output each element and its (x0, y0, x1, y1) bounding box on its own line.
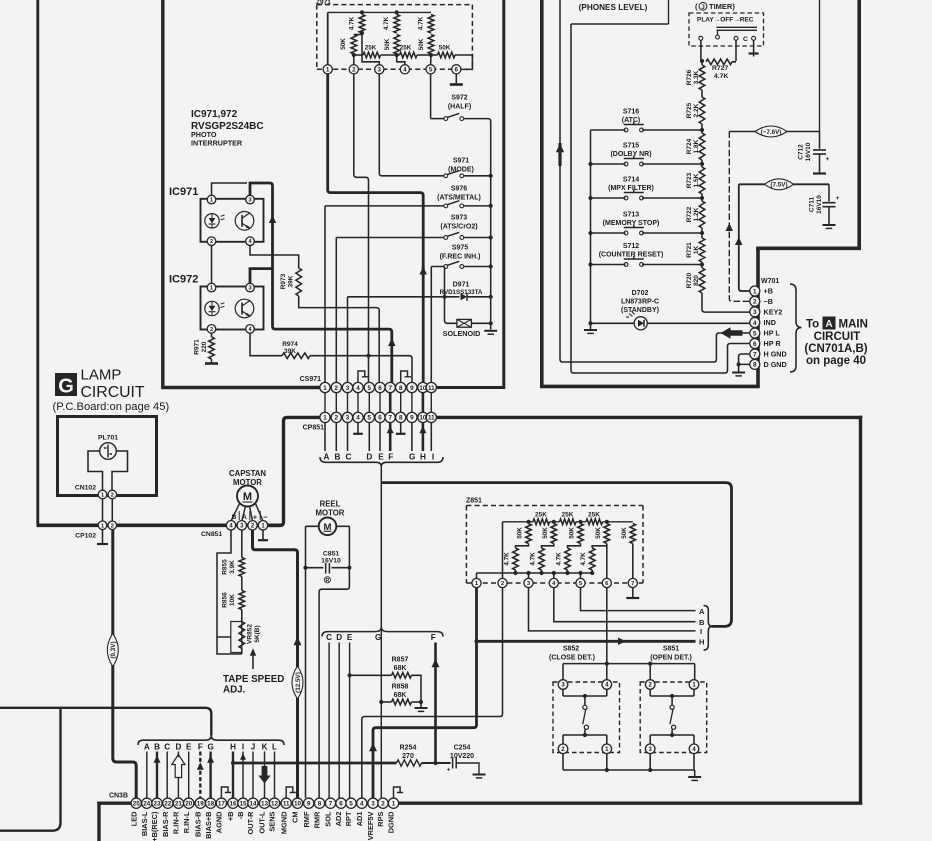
svg-text:15: 15 (239, 801, 247, 808)
connector CP851 pin 7 (385, 412, 395, 422)
svg-text:4.7K: 4.7K (714, 73, 728, 80)
svg-text:39K: 39K (288, 275, 295, 287)
wire - solenoid to rail (471, 322, 490, 324)
connector CN3B pin 11 (MGND) (281, 798, 291, 808)
connector CS971 pin 9 (407, 382, 417, 392)
arrow - up on CS971 pin7 bus (388, 338, 396, 346)
resistor R725 2.2K (701, 90, 703, 97)
svg-text:6: 6 (753, 341, 757, 348)
svg-text:R: R (325, 578, 329, 584)
svg-text:RMF: RMF (302, 811, 311, 827)
svg-text:7: 7 (388, 415, 392, 422)
connector Z971 pin 1 (323, 65, 332, 74)
resistor 4.7K (Z971 second) (394, 15, 400, 34)
arrow - up on pin10 bus (419, 267, 427, 275)
wire - CN102 to CP102 (103, 499, 113, 521)
wire - left box bottom border left of CS971 (161, 386, 322, 389)
wire - rail to C254 (422, 762, 451, 764)
svg-text:9: 9 (410, 385, 414, 392)
connector Z971 pin 3 (375, 65, 384, 74)
motor capstan M (237, 486, 258, 507)
jumper bracket at CN3B pin17 (AGND) (221, 787, 231, 798)
wire - HP R route to W701 pin6 (571, 344, 750, 374)
svg-text:1: 1 (323, 415, 327, 422)
svg-text:D971: D971 (453, 282, 470, 289)
svg-text:50K: 50K (418, 38, 425, 50)
wire - thick F column to +B rail (434, 643, 437, 764)
svg-text:6: 6 (378, 385, 382, 392)
svg-text:KEY2: KEY2 (764, 307, 783, 316)
svg-text:3: 3 (346, 385, 350, 392)
connector IC971 pin 3 (246, 195, 255, 204)
svg-text:(PHONES LEVEL): (PHONES LEVEL) (579, 3, 648, 12)
wire - thick bus Z971 pin1 to CS971 pin10 (328, 74, 424, 383)
label C851 polarity mark (324, 577, 330, 583)
svg-text:W701: W701 (761, 278, 779, 285)
svg-text:D: D (175, 743, 181, 752)
connector W701 pin 3 (KEY2) (750, 307, 760, 317)
switch S975 contacts (444, 265, 448, 269)
svg-text:BIAS-B: BIAS-B (194, 812, 203, 837)
svg-text:CIRCUIT: CIRCUIT (814, 331, 861, 343)
svg-text:7: 7 (329, 801, 333, 808)
wire - R973 bottom to CS971 pin6 column (299, 296, 380, 383)
switch TIMER dashed box (689, 13, 764, 46)
connector Z971 pin 4 (400, 65, 409, 74)
node - H line junction on pin1 column (474, 639, 478, 643)
arrow - up on VREF5V wire (369, 743, 377, 751)
svg-text:18: 18 (207, 801, 215, 808)
switch TIMER slider bar (717, 27, 758, 34)
wire - thick bundle branch to Z851 area (381, 483, 731, 627)
wire - thick stubs pins 7 and 10 (390, 392, 423, 413)
svg-text:R971: R971 (194, 339, 201, 355)
connector CN3B pin 8 (RMR) (314, 798, 324, 808)
resistor R724 1.8K (701, 124, 703, 133)
connector CN3B pin 21 (R.IN-R) (173, 798, 183, 808)
svg-text:CS971: CS971 (300, 376, 322, 383)
svg-text:L: L (272, 743, 277, 752)
wire - Z851 pin columns (529, 544, 633, 579)
svg-text:50K: 50K (384, 38, 391, 50)
wire - thick H column (+B) to CN3B pin16 (232, 752, 234, 799)
connector CN3B pin 4 (AD1) (357, 798, 367, 808)
svg-text:8: 8 (753, 362, 757, 369)
svg-text:(F.REC INH.): (F.REC INH.) (440, 254, 481, 261)
svg-text:E: E (347, 633, 353, 642)
connector CN851 pin 1 (258, 521, 267, 530)
svg-text:I: I (432, 453, 434, 462)
svg-text:S713: S713 (623, 212, 639, 219)
terminator - CP851 pin8 stub (400, 422, 402, 433)
svg-text:R857: R857 (392, 657, 409, 664)
svg-text:OUT-R: OUT-R (246, 811, 255, 835)
svg-text:19: 19 (197, 801, 205, 808)
resistor R722 1.2K (701, 194, 703, 201)
diode D702 LED symbol (634, 317, 647, 330)
svg-text:A: A (825, 319, 832, 330)
svg-text:16: 16 (229, 801, 237, 808)
wire - right block right border (857, 0, 861, 250)
wire - D702 row (IND) (591, 322, 635, 324)
svg-text:C711: C711 (809, 197, 816, 213)
svg-text:C712: C712 (798, 144, 805, 160)
svg-text:M: M (243, 491, 252, 503)
svg-text:IND: IND (764, 318, 776, 327)
svg-text:(−7.6V): (−7.6V) (761, 129, 782, 136)
svg-text:820: 820 (693, 275, 700, 286)
svg-text:(7.5V): (7.5V) (770, 182, 787, 189)
svg-text:E: E (378, 453, 384, 462)
label voltage (7.5V) (765, 179, 794, 190)
svg-text:BIAS-R: BIAS-R (161, 811, 170, 837)
resistor 25K (Z851 2) (560, 519, 577, 525)
connector CN3B pin 9 (RMF) (304, 798, 314, 808)
svg-text:S712: S712 (623, 243, 639, 250)
svg-text:1: 1 (753, 288, 757, 295)
svg-text:J: J (251, 743, 256, 752)
wire - thick IC972 pin3 link (250, 269, 273, 284)
connector IC972 pin 4 (246, 325, 255, 334)
svg-text:S973: S973 (451, 215, 467, 222)
connector Z851 pin 2 (498, 578, 507, 587)
connector CS971 pin 2 (331, 382, 341, 392)
wire - Z971 top rail (328, 11, 431, 13)
connector Z851 pin 3 (524, 578, 533, 587)
connector CP851 pin 4 (353, 412, 363, 422)
resistor 4.7K (Z971 third) (428, 15, 434, 34)
svg-text:12: 12 (271, 801, 279, 808)
svg-text:6: 6 (378, 415, 382, 422)
svg-text:(MEMORY STOP): (MEMORY STOP) (603, 220, 660, 227)
svg-text:1: 1 (323, 385, 327, 392)
svg-text:14: 14 (249, 801, 257, 808)
connector CN3B pin 19 (BIAS-B) (195, 798, 205, 808)
svg-text:Z851: Z851 (466, 498, 482, 505)
svg-text:270: 270 (402, 753, 414, 760)
arrow - up on HP L rail (558, 143, 561, 166)
wire - detector switch top feed line (563, 663, 695, 665)
svg-text:F: F (388, 453, 393, 462)
svg-text:(STANDBY): (STANDBY) (621, 307, 659, 314)
svg-text:3: 3 (248, 198, 251, 204)
connector CN3B pin 25 (LED) (131, 798, 141, 808)
connector Z971 pin 5 (426, 65, 435, 74)
svg-text:7: 7 (388, 385, 392, 392)
wire - right block step horizontal (756, 247, 861, 251)
svg-text:S976: S976 (451, 186, 467, 193)
svg-text:CN102: CN102 (75, 485, 96, 492)
connector CN3B pin 2 (RPS) (378, 798, 388, 808)
svg-text:E: E (186, 743, 192, 752)
wire - timer contacts down (701, 40, 736, 61)
wire - Z851 top rail (503, 521, 633, 523)
lamp PL701 (100, 443, 117, 460)
connector IC971 pin 2 (207, 237, 216, 246)
wire - Z851 pin5 to letter A (581, 588, 696, 611)
svg-text:R720: R720 (686, 272, 693, 288)
ground - W701 H GND/D GND (732, 372, 745, 374)
wire - A column to CN3B pin24 (146, 752, 148, 799)
wire - 50K to Z971 pin6 hook (455, 55, 472, 69)
connector CN3B pin 24 (BIAS-L) (142, 798, 152, 808)
svg-text:4.7K: 4.7K (504, 552, 511, 566)
svg-text:17: 17 (218, 801, 226, 808)
connector IC972 pin 2 (207, 325, 216, 334)
wire - Z851 pin3 to letter I (529, 588, 696, 631)
wire - Z851 pin4 to letter B (554, 588, 696, 622)
svg-text:25K: 25K (365, 44, 377, 51)
wire - C column to CN3B pin22 (166, 752, 168, 799)
wire - left box bottom border right of CS971 (437, 386, 505, 389)
svg-text:(12.5V): (12.5V) (295, 672, 302, 693)
resistor 25K (Z851 3) (586, 519, 603, 525)
connector CN3B pin 10 (CM) (292, 798, 302, 808)
connector IC971 pin 1 (207, 195, 216, 204)
connector CS971 pin 11 (426, 382, 436, 392)
resistor network Z971 dashed box (317, 5, 473, 70)
svg-text:25K: 25K (562, 512, 574, 519)
connector CP851 pin 1 (320, 412, 330, 422)
svg-text:C: C (326, 633, 332, 642)
wire - lower bundle brace for letters C D E G F (322, 627, 443, 636)
terminator - CN851 pin1 (262, 530, 264, 539)
connector CS971 pin 6 (375, 382, 385, 392)
svg-text:S714: S714 (623, 177, 639, 184)
connector CP851 pin 9 (407, 412, 417, 422)
svg-text:50K: 50K (439, 44, 451, 51)
svg-text:+: + (826, 156, 830, 163)
wire - R856 to VR852 (241, 610, 243, 622)
connector IC971 pin 4 (246, 237, 255, 246)
arrow - up on F column (432, 659, 440, 667)
wire - J column to CN3B pin14 (252, 752, 254, 799)
wire - S975 row to CS971 pin11 column (431, 267, 444, 384)
svg-text:R856: R856 (222, 592, 229, 608)
svg-text:(DOLBY NR): (DOLBY NR) (610, 151, 651, 158)
svg-text:Z971: Z971 (316, 0, 331, 6)
ground - D702 left (590, 322, 592, 329)
svg-text:To: To (806, 319, 819, 331)
svg-text:13: 13 (261, 801, 269, 808)
svg-text:20: 20 (185, 801, 193, 808)
svg-text:4: 4 (753, 320, 757, 327)
svg-text:25: 25 (133, 801, 141, 808)
connector IC972 pin 1 (207, 283, 216, 292)
svg-text:6: 6 (339, 801, 343, 808)
wire - Z851 pin6 column to detector switches (606, 588, 608, 680)
wire - lamp to CN102 (88, 451, 103, 491)
svg-text:25K: 25K (400, 44, 412, 51)
wire - C column (328, 643, 330, 799)
svg-text:10V220: 10V220 (450, 753, 474, 760)
svg-text:25K: 25K (588, 512, 600, 519)
svg-text:R974: R974 (282, 341, 298, 348)
solenoid symbol (457, 319, 472, 327)
svg-text:K: K (262, 743, 268, 752)
resistor R855 3.9K (239, 558, 245, 577)
svg-text:50K: 50K (621, 527, 628, 539)
svg-text:16V10: 16V10 (816, 195, 823, 214)
connector CS971 pin 4 (353, 382, 363, 392)
svg-text:S972: S972 (451, 95, 467, 102)
svg-text:C: C (743, 36, 748, 43)
connector CN3B pin 6 (AD2) (336, 798, 346, 808)
svg-text:IC972: IC972 (169, 274, 198, 286)
svg-text:G: G (375, 633, 381, 642)
svg-text:21: 21 (175, 801, 183, 808)
arrow - up on F line (387, 426, 394, 433)
wire - C254 to ground (456, 763, 479, 774)
resistor 25K (Z971 left horizontal) (354, 54, 363, 56)
svg-text:2: 2 (111, 493, 114, 499)
wire - HP R rail (570, 24, 572, 370)
switch TIMER contacts (699, 36, 703, 40)
svg-text:3.3K: 3.3K (693, 70, 700, 84)
arrow - up on F column CN3B (197, 762, 204, 770)
svg-text:MAIN: MAIN (839, 319, 868, 331)
wire - D column (338, 643, 340, 799)
wire - HP L rail (559, 0, 561, 360)
wire - thick F line below CP851 pin7 (389, 422, 392, 451)
wire - R974 row to CS971 pin9 column (310, 356, 412, 383)
svg-text:SENS: SENS (268, 811, 277, 831)
connector Z851 pin 1 (472, 578, 481, 587)
wire - left box left border (161, 0, 164, 387)
connector CS971 pin 8 (396, 382, 406, 392)
svg-text:PLAY→OFF→REC: PLAY→OFF→REC (697, 16, 754, 23)
diode D971 symbol (461, 293, 468, 300)
connector CP851 pin 3 (342, 412, 352, 422)
arrow - up on +B run (735, 237, 743, 245)
wire - IC971 pin2 to IC972 pin1 (211, 246, 213, 284)
svg-text:BIAS+B: BIAS+B (204, 812, 213, 839)
connector CN102 pin 1 (98, 490, 107, 499)
wire - push switch left rail (590, 130, 592, 322)
wire - Z851 pin2 column (502, 522, 504, 579)
svg-text:4.7K: 4.7K (530, 552, 537, 566)
arrow - up on H line (419, 426, 426, 433)
svg-text:F: F (431, 633, 436, 642)
svg-text:2: 2 (335, 415, 339, 422)
svg-text:3.9K: 3.9K (229, 560, 236, 574)
connector Z851 pin 4 (549, 578, 558, 587)
svg-text:3: 3 (346, 415, 350, 422)
wire - IC972 pin2 to R971 (211, 333, 213, 337)
wire - top right vertical feed (819, 0, 821, 132)
svg-text:(ATC): (ATC) (622, 117, 641, 124)
connector CN3B pin 17 (AGND) (216, 798, 226, 808)
svg-text:1K: 1K (693, 246, 700, 255)
node - Z971 rail junctions (360, 10, 364, 14)
connector W701 pin 8 (D GND) (750, 359, 760, 369)
wire - D971 row to CS971 pin3 column (348, 297, 460, 383)
switch S973 contacts (444, 236, 448, 240)
svg-text:R254: R254 (400, 745, 417, 752)
svg-text:R858: R858 (392, 684, 409, 691)
lamp box border (58, 417, 157, 496)
ground - R971 (211, 359, 213, 363)
wire - +B run to W701 pin1 (739, 184, 750, 291)
svg-text:+B(REC): +B(REC) (150, 811, 159, 841)
connector Z851 pin 6 (602, 578, 611, 587)
connector Z851 pin 5 (576, 578, 585, 587)
svg-text:PL701: PL701 (98, 435, 118, 442)
connector IC972 pin 3 (246, 283, 255, 292)
svg-text:I: I (700, 627, 702, 636)
svg-text:I: I (242, 743, 244, 752)
svg-text:2: 2 (335, 385, 339, 392)
connector CP851 pin 2 (331, 412, 341, 422)
svg-text:A: A (699, 607, 705, 616)
svg-text:MOTOR: MOTOR (316, 509, 345, 518)
svg-text:G: G (58, 376, 74, 398)
svg-text:A: A (242, 514, 247, 521)
svg-text:68K: 68K (394, 692, 407, 699)
wire - Z971 pin2 column jog down to CS971 pin5 (354, 74, 369, 383)
svg-text:1.8K: 1.8K (693, 139, 700, 153)
wire - detector switches bottom common (563, 769, 695, 771)
ground - Z971 pin6 (455, 74, 457, 84)
svg-text:11: 11 (428, 415, 435, 422)
svg-text:AD1: AD1 (355, 812, 364, 827)
svg-text:4: 4 (360, 801, 364, 808)
svg-text:D GND: D GND (764, 360, 787, 369)
svg-text:8: 8 (399, 385, 403, 392)
svg-text:(CLOSE DET.): (CLOSE DET.) (549, 655, 595, 662)
connector W701 pin 6 (HP R) (750, 339, 760, 349)
svg-text:VR852: VR852 (247, 624, 254, 644)
resistor R974 39K (282, 353, 310, 359)
connector CP851 pin 5 (364, 412, 374, 422)
svg-text:CAPSTAN: CAPSTAN (229, 469, 266, 478)
wire - right block notch vertical at W701 (756, 248, 760, 388)
resistor R727 4.7K (706, 59, 732, 65)
svg-text:A: A (144, 743, 150, 752)
svg-text:DGND: DGND (387, 811, 396, 833)
resistor 50K (Z971 third vertical) (428, 35, 434, 55)
svg-text:HP R: HP R (764, 339, 782, 348)
wire - reel motor right rail (319, 526, 349, 798)
svg-text:2.2K: 2.2K (693, 103, 700, 117)
svg-text:B: B (232, 514, 237, 521)
svg-text:2: 2 (111, 523, 114, 529)
svg-text:R973: R973 (280, 273, 287, 289)
svg-text:(P.C.Board:on page 45): (P.C.Board:on page 45) (53, 401, 170, 413)
svg-text:CP851: CP851 (303, 425, 325, 432)
terminator - CP851 pin4 stub (357, 422, 359, 433)
connector CS971 pin 5 (364, 382, 374, 392)
svg-text:+B: +B (764, 287, 773, 296)
svg-text:ADJ.: ADJ. (223, 685, 246, 696)
svg-text:TIMER): TIMER) (709, 2, 735, 11)
ground - detector switches (694, 770, 696, 776)
node - pin5 column junction on R974 row (366, 354, 370, 358)
arrow - up on B column (154, 755, 161, 763)
wire - R855 to R856 (241, 577, 243, 591)
label voltage (12.5V) (292, 666, 303, 699)
wire - bundle from left edge to CN3B brace (0, 708, 211, 736)
svg-text:(COUNTER RESET): (COUNTER RESET) (599, 252, 664, 259)
connector CN102 pin 2 (108, 490, 117, 499)
svg-text:R.IN-L: R.IN-L (182, 811, 191, 833)
wire - K column to CN3B pin13 (264, 752, 266, 799)
resistors 4.7K vertical (Z851) (516, 544, 529, 549)
svg-text:4: 4 (356, 385, 360, 392)
wire - brace over CN3B letters A-L (138, 736, 284, 746)
wire - D971 node down to solenoid (445, 297, 457, 324)
svg-text:(OPEN DET.): (OPEN DET.) (650, 655, 692, 662)
